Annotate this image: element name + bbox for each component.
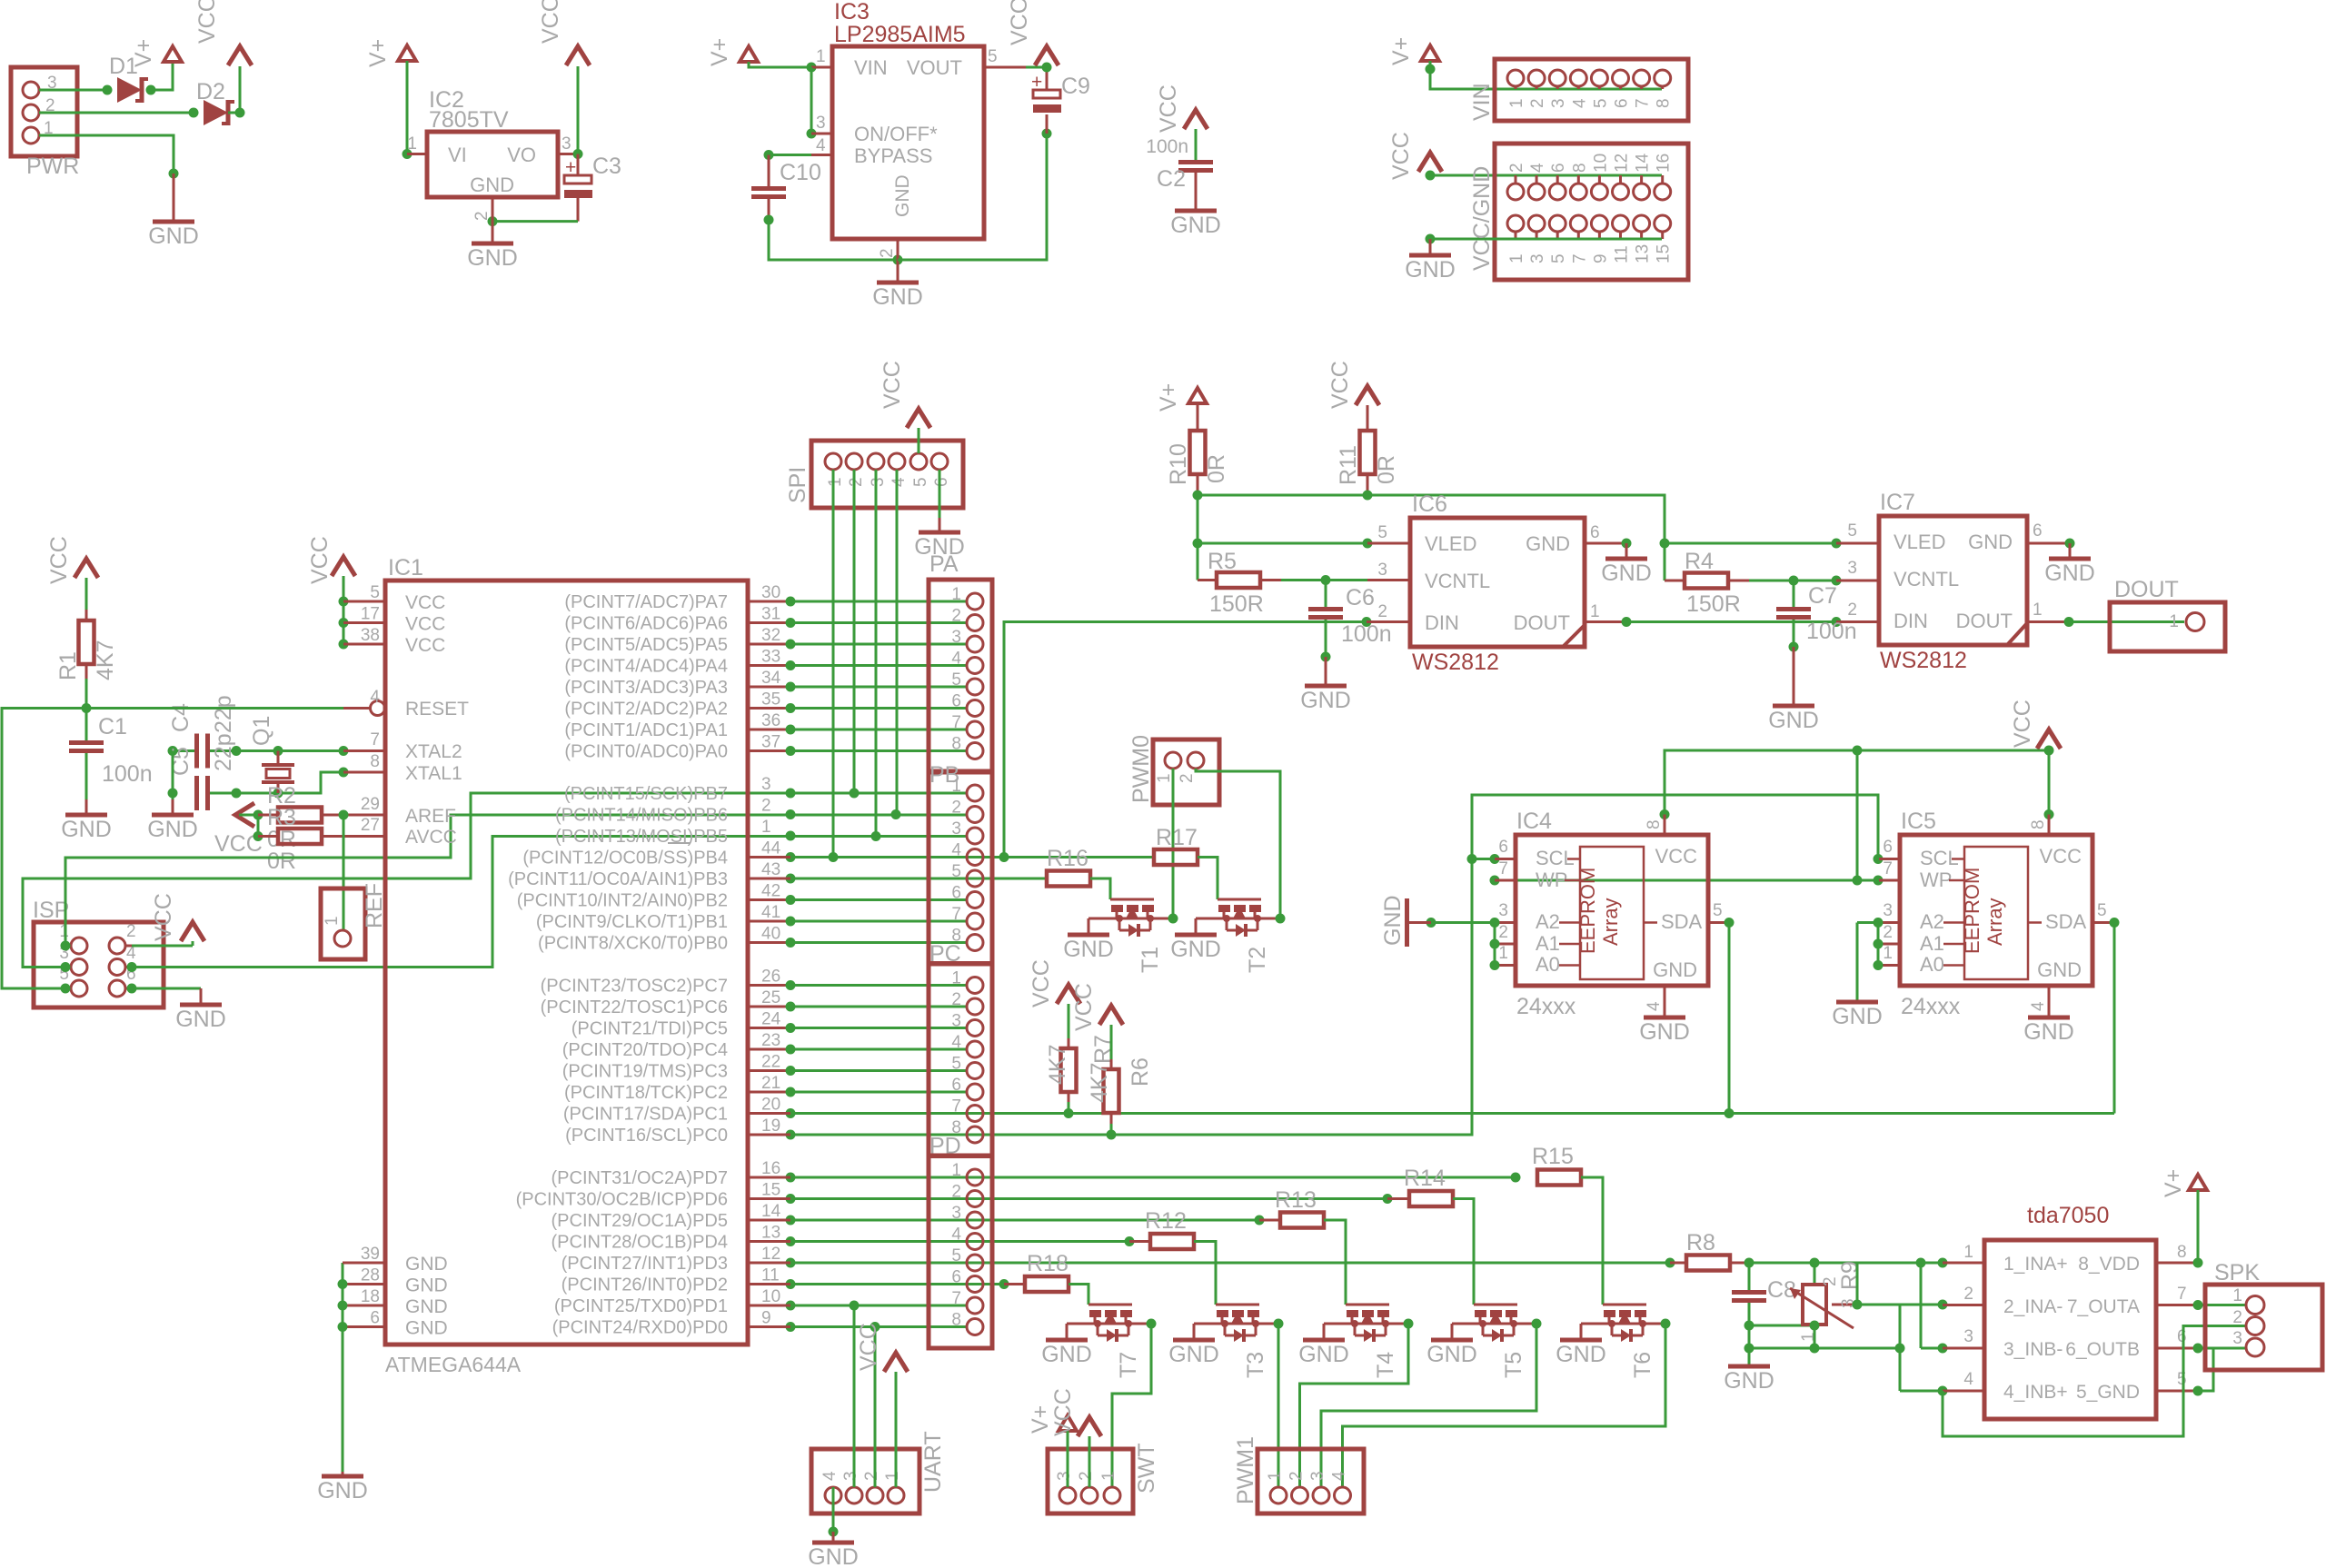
svg-text:WS2812: WS2812 bbox=[1880, 648, 1967, 673]
svg-text:GND: GND bbox=[1300, 688, 1351, 713]
svg-text:(PCINT2/ADC2)PA2: (PCINT2/ADC2)PA2 bbox=[564, 700, 728, 719]
svg-text:2: 2 bbox=[1077, 1471, 1096, 1481]
svg-text:GND: GND bbox=[405, 1275, 448, 1296]
svg-text:5: 5 bbox=[988, 47, 998, 66]
supply VCC (R1) bbox=[75, 559, 98, 578]
ground (PWR) bbox=[173, 174, 175, 222]
svg-text:VCC/GND: VCC/GND bbox=[1469, 166, 1495, 271]
wire SPI pin2 to PB7 bbox=[853, 470, 856, 793]
supply VCC (VCC/GND header) bbox=[1418, 153, 1442, 172]
svg-text:6: 6 bbox=[951, 1268, 961, 1287]
svg-text:(PCINT16/SCL)PC0: (PCINT16/SCL)PC0 bbox=[565, 1126, 728, 1146]
svg-text:GND: GND bbox=[405, 1318, 448, 1339]
node R9 top bbox=[1810, 1258, 1820, 1268]
svg-text:VCC: VCC bbox=[1655, 845, 1698, 868]
wire R13 to T4 gate bbox=[1324, 1220, 1346, 1305]
transistor T4 bbox=[1346, 1304, 1389, 1306]
svg-text:VCC: VCC bbox=[1388, 132, 1414, 180]
capacitor C6 100n bbox=[1325, 581, 1327, 608]
svg-text:VCC: VCC bbox=[307, 536, 333, 584]
driver IC6 WS2812 bbox=[1410, 518, 1585, 647]
svg-text:Array: Array bbox=[1599, 898, 1622, 946]
svg-text:GND: GND bbox=[2044, 561, 2095, 586]
svg-text:28: 28 bbox=[361, 1266, 380, 1285]
node PB4 DIN riser bbox=[999, 852, 1009, 862]
wire R18 to T7 gate bbox=[1069, 1285, 1088, 1305]
svg-text:4_INB+: 4_INB+ bbox=[2003, 1382, 2068, 1403]
node IC2 VO bbox=[573, 149, 583, 159]
node XTAL1 C5 bbox=[232, 789, 242, 799]
node XTAL2 crystal bbox=[273, 746, 283, 756]
svg-text:DOUT: DOUT bbox=[1956, 610, 2013, 632]
svg-text:150R: 150R bbox=[1209, 591, 1264, 617]
svg-text:10: 10 bbox=[1591, 154, 1610, 173]
svg-text:6: 6 bbox=[1498, 838, 1508, 857]
svg-text:1: 1 bbox=[407, 134, 417, 154]
ground (UART) bbox=[832, 1532, 835, 1543]
capacitor C4 22p bbox=[194, 734, 199, 769]
svg-text:4: 4 bbox=[951, 1033, 961, 1052]
svg-text:R10: R10 bbox=[1166, 443, 1191, 485]
svg-text:33: 33 bbox=[761, 648, 780, 667]
svg-text:(PCINT23/TOSC2)PC7: (PCINT23/TOSC2)PC7 bbox=[541, 977, 728, 997]
svg-text:5: 5 bbox=[2097, 901, 2107, 920]
svg-text:2: 2 bbox=[1507, 163, 1526, 173]
svg-text:(PCINT3/ADC3)PA3: (PCINT3/ADC3)PA3 bbox=[564, 678, 728, 698]
node IC5 pin8 bbox=[2044, 809, 2054, 819]
svg-text:7: 7 bbox=[2177, 1285, 2187, 1304]
svg-text:(PCINT27/INT1)PD3: (PCINT27/INT1)PD3 bbox=[562, 1254, 728, 1274]
wire PD0 row bbox=[748, 1325, 790, 1328]
svg-text:7: 7 bbox=[1883, 859, 1893, 878]
svg-text:1: 1 bbox=[761, 818, 771, 837]
node PD0 UART bbox=[870, 1322, 880, 1332]
wire wiper node bbox=[1856, 1263, 1859, 1305]
svg-text:ON/OFF*: ON/OFF* bbox=[854, 123, 938, 145]
svg-text:ISP: ISP bbox=[33, 898, 69, 923]
svg-text:T1: T1 bbox=[1138, 947, 1163, 973]
wire DIN riser bbox=[1004, 622, 1367, 858]
svg-text:7: 7 bbox=[951, 1097, 961, 1116]
node IC5 WP bbox=[1874, 876, 1884, 886]
svg-text:GND: GND bbox=[1724, 1368, 1774, 1394]
connector SWT bbox=[1048, 1449, 1133, 1513]
wire VCC rail to IC4/IC5 pin8 bbox=[1665, 750, 2049, 815]
svg-text:UART: UART bbox=[920, 1431, 946, 1493]
svg-text:20: 20 bbox=[761, 1096, 780, 1115]
svg-text:13: 13 bbox=[1634, 244, 1653, 263]
node RESET/R1/C1 bbox=[82, 703, 92, 713]
wire PD7 row to R15 bbox=[748, 1176, 790, 1179]
svg-text:5: 5 bbox=[951, 862, 961, 881]
svg-text:R5: R5 bbox=[1208, 549, 1237, 574]
node PWR ground bbox=[169, 169, 179, 179]
ground (ISP) bbox=[200, 988, 203, 1005]
node T2 drain bbox=[1276, 914, 1286, 924]
svg-text:GND: GND bbox=[914, 534, 965, 560]
svg-text:2: 2 bbox=[126, 922, 136, 941]
svg-text:6: 6 bbox=[1590, 523, 1600, 542]
wire V+ to IC3 VIN bbox=[749, 62, 811, 67]
svg-text:Q1: Q1 bbox=[249, 716, 274, 746]
node IC3 pin2 bbox=[893, 255, 903, 265]
svg-text:150R: 150R bbox=[1686, 591, 1741, 617]
node amp pin8 bbox=[2193, 1258, 2203, 1268]
svg-text:5: 5 bbox=[1713, 901, 1723, 920]
svg-text:VIN: VIN bbox=[1469, 83, 1495, 121]
svg-text:6: 6 bbox=[951, 692, 961, 711]
svg-text:A2: A2 bbox=[1920, 910, 1944, 933]
svg-text:2: 2 bbox=[1847, 600, 1857, 620]
svg-text:R13: R13 bbox=[1275, 1187, 1317, 1213]
svg-text:(PCINT5/ADC5)PA5: (PCINT5/ADC5)PA5 bbox=[564, 635, 728, 655]
wire INB- tie bbox=[1920, 1263, 1923, 1348]
svg-text:BYPASS: BYPASS bbox=[854, 144, 932, 167]
svg-text:(PCINT19/TMS)PC3: (PCINT19/TMS)PC3 bbox=[562, 1062, 728, 1082]
svg-text:R11: R11 bbox=[1336, 445, 1361, 485]
svg-text:GND: GND bbox=[1601, 561, 1652, 586]
svg-text:8: 8 bbox=[2177, 1243, 2187, 1262]
node amp pin1 bbox=[1938, 1258, 1948, 1268]
wire ISP MOSI (pin4 to PB5) bbox=[132, 837, 967, 968]
svg-text:WP: WP bbox=[1920, 868, 1952, 891]
supply VCC (EEPROM rail) bbox=[2037, 729, 2061, 749]
svg-text:8: 8 bbox=[951, 1311, 961, 1330]
svg-text:Array: Array bbox=[1983, 898, 2006, 946]
svg-text:2: 2 bbox=[862, 1471, 881, 1481]
svg-text:38: 38 bbox=[361, 626, 380, 645]
resistor R10 0R bbox=[1197, 403, 1199, 431]
svg-text:3: 3 bbox=[1549, 98, 1568, 108]
svg-text:5: 5 bbox=[2177, 1370, 2187, 1389]
connector SPK bbox=[2205, 1285, 2322, 1370]
svg-text:D2: D2 bbox=[196, 79, 225, 104]
svg-text:+: + bbox=[565, 157, 576, 178]
svg-text:+: + bbox=[1031, 72, 1042, 93]
svg-text:A0: A0 bbox=[1920, 953, 1944, 976]
ground (IC7) bbox=[2069, 543, 2072, 559]
svg-text:3: 3 bbox=[951, 1204, 961, 1223]
svg-text:7_OUTA: 7_OUTA bbox=[2067, 1296, 2140, 1317]
wire C8 to R9 bottom bbox=[1749, 1325, 1814, 1327]
svg-text:3: 3 bbox=[1528, 253, 1547, 263]
ground (C4/C5) bbox=[172, 799, 174, 815]
svg-text:8: 8 bbox=[1655, 98, 1674, 108]
wire PD6 row to R14 bbox=[748, 1197, 790, 1200]
IC1 VCC pins bbox=[339, 597, 349, 607]
connector DOUT bbox=[2110, 602, 2225, 651]
svg-text:1: 1 bbox=[1498, 944, 1508, 963]
wire VCC to even pins bbox=[1429, 172, 1432, 175]
IC1 RESET pin bbox=[343, 707, 370, 710]
svg-text:GND: GND bbox=[1168, 1342, 1219, 1367]
svg-text:2: 2 bbox=[1963, 1285, 1973, 1304]
svg-text:6: 6 bbox=[932, 477, 951, 487]
svg-text:4K7: 4K7 bbox=[1045, 1045, 1070, 1085]
node C10 bottom bbox=[764, 215, 774, 225]
capacitor C1 100n bbox=[69, 740, 104, 745]
resistor R5 150R bbox=[1197, 543, 1199, 581]
svg-text:3: 3 bbox=[1308, 1471, 1327, 1481]
node C10 top bbox=[764, 150, 774, 160]
connector SPI bbox=[811, 441, 963, 508]
svg-text:GND: GND bbox=[470, 174, 514, 196]
svg-text:VCC: VCC bbox=[2040, 845, 2082, 868]
svg-text:tda7050: tda7050 bbox=[2027, 1203, 2109, 1228]
svg-text:(PCINT12/OC0B/SS)PB4: (PCINT12/OC0B/SS)PB4 bbox=[522, 849, 728, 868]
capacitor C5 22p bbox=[194, 776, 199, 810]
node amp pin6 bbox=[2193, 1344, 2203, 1354]
node amp pin7 bbox=[2193, 1300, 2203, 1310]
ground (C8) bbox=[1748, 1365, 1751, 1368]
svg-text:2: 2 bbox=[951, 990, 961, 1009]
capacitor C9 bbox=[1046, 114, 1049, 134]
node C8 top bbox=[1744, 1258, 1754, 1268]
node R13 left bbox=[1255, 1216, 1265, 1226]
ground (C6) bbox=[1325, 657, 1327, 686]
svg-text:2: 2 bbox=[1498, 923, 1508, 942]
node XTAL1 crystal bbox=[273, 789, 283, 799]
wire UART pin2 to PD0 bbox=[874, 1327, 877, 1488]
ground (IC6) bbox=[1625, 543, 1628, 559]
node PB4 SPI bbox=[829, 852, 839, 862]
ground (C7) bbox=[1793, 647, 1795, 706]
node amp pin5 bbox=[2193, 1386, 2203, 1396]
svg-text:GND: GND bbox=[1653, 958, 1697, 981]
node SPI MOSI drop bbox=[871, 831, 881, 841]
svg-text:C6: C6 bbox=[1346, 585, 1375, 610]
svg-text:2: 2 bbox=[761, 797, 771, 816]
svg-text:1: 1 bbox=[951, 1161, 961, 1180]
svg-text:25: 25 bbox=[761, 988, 780, 1007]
svg-text:5: 5 bbox=[1549, 253, 1568, 263]
svg-text:R6: R6 bbox=[1128, 1057, 1153, 1087]
svg-text:GND: GND bbox=[147, 817, 198, 842]
node C7 bottom bbox=[1789, 642, 1799, 652]
svg-text:4: 4 bbox=[951, 650, 961, 669]
svg-text:GND: GND bbox=[1298, 1342, 1349, 1367]
node IC7 DIN pin bbox=[1832, 617, 1842, 627]
svg-text:V+: V+ bbox=[131, 39, 156, 67]
svg-text:A0: A0 bbox=[1536, 953, 1560, 976]
svg-text:3: 3 bbox=[951, 1012, 961, 1031]
node R14 left bbox=[1383, 1194, 1393, 1204]
node IC2 pin2 bbox=[488, 216, 498, 226]
transistor T2 bbox=[1218, 898, 1261, 901]
svg-text:(PCINT28/OC1B)PD4: (PCINT28/OC1B)PD4 bbox=[552, 1233, 729, 1253]
wire XTAL2 net bbox=[173, 749, 194, 752]
node R2 left bbox=[253, 831, 263, 841]
svg-text:C10: C10 bbox=[780, 160, 821, 185]
node wiper bbox=[1853, 1300, 1863, 1310]
svg-text:(PCINT9/CLKO/T1)PB1: (PCINT9/CLKO/T1)PB1 bbox=[536, 912, 728, 932]
resistor R11 0R bbox=[1367, 405, 1369, 431]
node T1 drain bbox=[1168, 914, 1178, 924]
header PD box bbox=[929, 1156, 992, 1348]
svg-text:6: 6 bbox=[1549, 163, 1568, 173]
wire IC5 SDA drop bbox=[2110, 918, 2120, 928]
svg-text:1: 1 bbox=[1507, 98, 1526, 108]
supply VCC (IC3 output) bbox=[1035, 46, 1059, 65]
node C6 top bbox=[1321, 575, 1331, 585]
node IC4 SCL bbox=[1490, 854, 1500, 864]
connector PWM1 bbox=[1257, 1449, 1364, 1513]
svg-text:11: 11 bbox=[761, 1266, 780, 1285]
svg-text:R12: R12 bbox=[1145, 1208, 1187, 1234]
svg-text:WP: WP bbox=[1536, 868, 1567, 891]
wire PD2 row to R18 bbox=[748, 1283, 790, 1285]
svg-text:VCC: VCC bbox=[194, 0, 220, 44]
svg-text:1: 1 bbox=[816, 47, 826, 66]
wire SPI pin4 to PB6 bbox=[896, 470, 899, 815]
svg-text:GND: GND bbox=[872, 284, 923, 310]
svg-text:30: 30 bbox=[761, 583, 780, 602]
node IC7 DOUT bbox=[2064, 617, 2074, 627]
svg-text:(PCINT1/ADC1)PA1: (PCINT1/ADC1)PA1 bbox=[564, 720, 728, 740]
resistor R18 bbox=[1004, 1283, 1025, 1285]
svg-text:GND: GND bbox=[1426, 1342, 1477, 1367]
svg-text:12: 12 bbox=[761, 1245, 780, 1264]
connector PWR bbox=[11, 67, 77, 156]
svg-text:2: 2 bbox=[951, 1183, 961, 1202]
svg-text:DIN: DIN bbox=[1894, 610, 1928, 632]
svg-text:(PCINT24/RXD0)PD0: (PCINT24/RXD0)PD0 bbox=[552, 1318, 728, 1338]
wire VCC to R3 bbox=[239, 814, 258, 817]
amplifier tda7050 bbox=[1943, 1262, 1984, 1265]
svg-text:V+: V+ bbox=[707, 38, 732, 66]
wire IC7 DOUT to DOUT connector bbox=[2027, 620, 2069, 623]
wire IC3 GND to C9 bbox=[898, 134, 1047, 260]
svg-text:6: 6 bbox=[1883, 838, 1893, 857]
svg-text:(PCINT17/SDA)PC1: (PCINT17/SDA)PC1 bbox=[563, 1105, 728, 1125]
svg-text:41: 41 bbox=[761, 903, 780, 922]
svg-text:(PCINT13/MOSI)PB5: (PCINT13/MOSI)PB5 bbox=[555, 827, 728, 847]
svg-text:2: 2 bbox=[951, 607, 961, 626]
node T4 drain bbox=[1404, 1319, 1414, 1329]
svg-text:VCC: VCC bbox=[1007, 0, 1032, 45]
svg-text:R17: R17 bbox=[1156, 825, 1198, 850]
transistor T6 bbox=[1603, 1304, 1646, 1306]
svg-text:5: 5 bbox=[1847, 521, 1857, 541]
svg-text:VCC: VCC bbox=[1029, 959, 1054, 1007]
node GND feed bbox=[1426, 234, 1436, 244]
svg-text:IC6: IC6 bbox=[1412, 491, 1447, 517]
resistor R6 4K7 (SCL pull-up) bbox=[1110, 1025, 1113, 1059]
svg-text:GND: GND bbox=[1170, 937, 1221, 962]
svg-text:3: 3 bbox=[1963, 1327, 1973, 1346]
svg-text:1: 1 bbox=[323, 916, 342, 926]
supply V+ (R10) bbox=[1188, 388, 1207, 403]
svg-text:GND: GND bbox=[1063, 937, 1114, 962]
svg-text:IC1: IC1 bbox=[388, 555, 423, 581]
node R3 left bbox=[253, 810, 263, 820]
resistor R1 4K7 bbox=[85, 578, 88, 610]
svg-text:2: 2 bbox=[2232, 1308, 2242, 1327]
wire VLED rail bbox=[1198, 495, 1665, 543]
node SPI SCK drop bbox=[850, 789, 860, 799]
svg-text:GND: GND bbox=[1041, 1342, 1092, 1367]
svg-text:22p: 22p bbox=[211, 695, 236, 733]
svg-text:V+: V+ bbox=[1028, 1405, 1053, 1434]
svg-text:VCC: VCC bbox=[151, 893, 176, 941]
svg-text:5: 5 bbox=[951, 1055, 961, 1074]
node IC4 pin8 bbox=[1660, 809, 1670, 819]
supply VCC (IC1) bbox=[332, 557, 355, 576]
svg-text:8_VDD: 8_VDD bbox=[2078, 1254, 2140, 1275]
svg-text:(PCINT31/OC2A)PD7: (PCINT31/OC2A)PD7 bbox=[552, 1168, 729, 1188]
svg-text:(PCINT18/TCK)PC2: (PCINT18/TCK)PC2 bbox=[564, 1083, 728, 1103]
svg-text:R16: R16 bbox=[1047, 846, 1088, 871]
svg-text:4: 4 bbox=[816, 136, 826, 155]
supply VCC (D2) bbox=[228, 46, 252, 65]
wire INA- row bbox=[1857, 1304, 1943, 1306]
svg-text:4: 4 bbox=[1528, 163, 1547, 173]
svg-text:SPI: SPI bbox=[785, 467, 810, 503]
resistor R4 150R bbox=[1664, 543, 1666, 581]
svg-text:A1: A1 bbox=[1920, 932, 1944, 955]
resistor R3 0R bbox=[258, 814, 278, 817]
svg-text:V+: V+ bbox=[365, 39, 391, 67]
svg-text:V+: V+ bbox=[1156, 383, 1181, 412]
supply VCC (R7) bbox=[1057, 985, 1080, 1004]
svg-text:2_INA-: 2_INA- bbox=[2003, 1296, 2063, 1317]
node IC6 VLED pin bbox=[1363, 539, 1373, 549]
node ISP pin1 bbox=[61, 941, 71, 951]
svg-text:1: 1 bbox=[2033, 600, 2043, 620]
svg-text:36: 36 bbox=[761, 711, 780, 730]
capacitor C8 bbox=[1748, 1263, 1751, 1290]
svg-text:3: 3 bbox=[841, 1471, 860, 1481]
eeprom IC5 24xxx bbox=[1900, 835, 2092, 986]
wire V+ to IC2 VI bbox=[406, 61, 409, 154]
svg-text:4: 4 bbox=[820, 1471, 840, 1481]
svg-text:7: 7 bbox=[951, 713, 961, 732]
node IC2 pin1 bbox=[403, 149, 413, 159]
wire IC7 GND pin to ground bbox=[2027, 542, 2070, 545]
svg-text:VCC: VCC bbox=[1050, 1388, 1076, 1436]
svg-text:1: 1 bbox=[951, 585, 961, 604]
svg-text:5: 5 bbox=[1377, 523, 1387, 542]
wire AREF to REF connector bbox=[343, 815, 345, 930]
node VCC feed bbox=[1426, 171, 1436, 181]
node T6 drain bbox=[1661, 1319, 1671, 1329]
supply V+ (IC3 input) bbox=[740, 46, 758, 62]
svg-text:GND: GND bbox=[1405, 257, 1456, 283]
svg-text:8: 8 bbox=[1645, 819, 1664, 829]
svg-text:C1: C1 bbox=[98, 714, 127, 739]
svg-text:(PCINT29/OC1A)PD5: (PCINT29/OC1A)PD5 bbox=[552, 1211, 729, 1231]
wire T3 to PWM1 pin1 bbox=[1277, 1324, 1280, 1487]
svg-text:9: 9 bbox=[761, 1309, 771, 1328]
wire ISP MISO (pin1 to PB6) bbox=[65, 815, 967, 946]
svg-text:0R: 0R bbox=[267, 849, 296, 874]
svg-text:39: 39 bbox=[361, 1245, 380, 1264]
svg-text:6: 6 bbox=[951, 1076, 961, 1095]
supply VCC (UART pin1) bbox=[884, 1353, 908, 1372]
svg-text:GND: GND bbox=[1380, 895, 1406, 946]
connector VIN 8-pin header bbox=[1495, 59, 1688, 121]
wire IC6 GND pin to ground bbox=[1585, 542, 1626, 545]
wire IC6 VLED row bbox=[1197, 495, 1199, 543]
svg-text:R9: R9 bbox=[1837, 1261, 1863, 1290]
svg-text:1: 1 bbox=[1507, 253, 1526, 263]
wire R15 to T6 gate bbox=[1581, 1177, 1603, 1305]
svg-text:(PCINT30/OC2B/ICP)PD6: (PCINT30/OC2B/ICP)PD6 bbox=[516, 1190, 728, 1210]
wire V+ to VDD bbox=[2197, 1190, 2200, 1263]
header PB box bbox=[929, 771, 992, 964]
svg-text:6_OUTB: 6_OUTB bbox=[2065, 1339, 2140, 1360]
svg-text:(PCINT14/MISO)PB6: (PCINT14/MISO)PB6 bbox=[555, 806, 728, 826]
